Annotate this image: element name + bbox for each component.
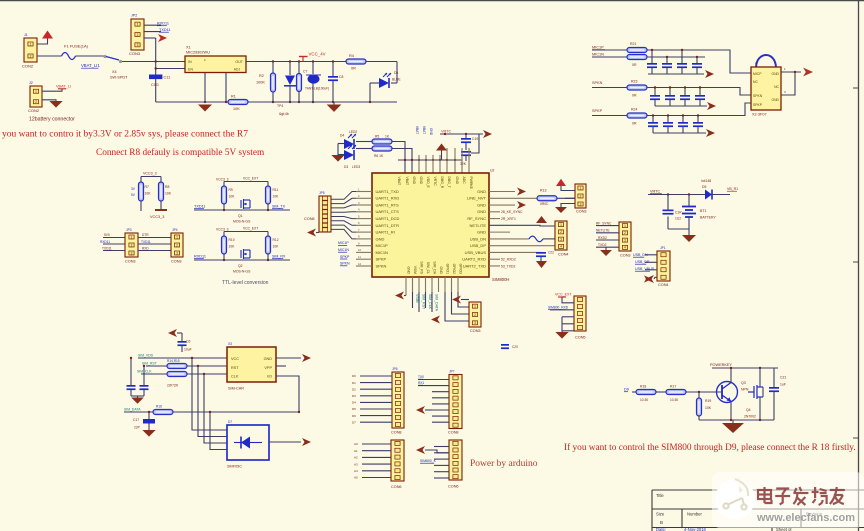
wire led to R5 (356, 141, 372, 143)
svg-text:UART1_DTR: UART1_DTR (376, 223, 400, 228)
svg-text:B: B (660, 520, 663, 525)
ground CON3 top (555, 207, 567, 213)
svg-text:GND: GND (477, 202, 486, 207)
gnd arrow CON8 (307, 229, 316, 237)
svg-text:JP5: JP5 (319, 191, 325, 195)
watermark panel (712, 472, 864, 528)
svg-text:TXD2: TXD2 (598, 243, 607, 247)
transistor Q3 NPN (717, 382, 738, 403)
resistor R7 (139, 182, 144, 201)
svg-text:10K: 10K (165, 192, 172, 196)
svg-text:A5: A5 (354, 476, 358, 480)
svg-text:2: 2 (560, 230, 562, 234)
svg-text:MIC29302WU: MIC29302WU (186, 51, 210, 55)
svg-text:VSIM: VSIM (413, 266, 417, 274)
svg-text:R17: R17 (670, 385, 676, 389)
svg-text:R19: R19 (705, 399, 711, 403)
gnd arrow C22 (536, 261, 547, 268)
svg-text:Date:: Date: (656, 527, 666, 531)
svg-text:1: 1 (35, 90, 37, 94)
svg-text:SIM_RS: SIM_RS (420, 261, 424, 274)
svg-text:32K: 32K (460, 162, 467, 166)
svg-text:SIM_TX: SIM_TX (272, 205, 286, 209)
svg-text:Number: Number (687, 512, 702, 517)
capacitor C17 (148, 412, 150, 419)
svg-text:MIC1N: MIC1N (338, 248, 349, 252)
led D4 NETLIGHT (344, 139, 354, 149)
svg-text:RX1: RX1 (418, 381, 424, 385)
wire tvs right (269, 441, 301, 443)
wire powerkey bottom rail (699, 419, 774, 421)
svg-text:1U2: 1U2 (675, 217, 681, 221)
capacitor C18 (667, 195, 669, 210)
svg-text:X1: X1 (186, 46, 191, 50)
ground C13 C14 (137, 396, 139, 398)
svg-text:2: 2 (131, 243, 133, 247)
power arrow X2 (803, 68, 813, 77)
svg-text:MIC1P: MIC1P (376, 243, 389, 248)
connector J1 (24, 38, 37, 62)
wire top rail powerkey (712, 367, 778, 369)
svg-text:SPKP: SPKP (340, 255, 350, 259)
svg-text:1: 1 (30, 42, 32, 46)
svg-text:TXD11: TXD11 (141, 240, 151, 244)
ground C17 (142, 430, 155, 437)
svg-text:VCC3_3: VCC3_3 (216, 178, 229, 182)
svg-text:4: 4 (560, 245, 562, 249)
svg-text:UART2_RXD: UART2_RXD (462, 257, 486, 262)
svg-text:X3: X3 (228, 342, 232, 346)
svg-text:SIM_RST: SIM_RST (422, 294, 426, 310)
wire JP2 pin3 (144, 37, 156, 39)
svg-text:ADJ: ADJ (234, 68, 241, 72)
svg-text:12: 12 (358, 262, 362, 266)
svg-text:A1: A1 (354, 449, 358, 453)
svg-text:GND: GND (412, 177, 416, 185)
wire switch to regulator IN (122, 61, 185, 63)
svg-text:D7: D7 (228, 420, 232, 424)
svg-text:OUT: OUT (235, 60, 243, 64)
svg-text:VCC_EXT: VCC_EXT (243, 177, 258, 181)
IC U2 bottom pin wires (405, 277, 407, 292)
ground CON3 far right (605, 247, 607, 250)
wire JP2 pin3 down to EN / bottom rail (155, 38, 157, 102)
svg-text:X2-3F07: X2-3F07 (752, 113, 767, 117)
svg-text:D3: D3 (352, 394, 356, 398)
resistor R24 (627, 113, 647, 118)
svg-text:R24: R24 (631, 108, 637, 112)
svg-text:D4: D4 (352, 401, 356, 405)
wires SIM rows to TVS (192, 358, 227, 430)
wire EN stub (156, 68, 185, 70)
svg-text:CON4: CON4 (658, 283, 669, 287)
battery BT1 (688, 195, 690, 207)
svg-text:SPKP: SPKP (592, 109, 603, 113)
svg-text:BATTERY: BATTERY (700, 216, 716, 220)
svg-text:VRTC: VRTC (650, 190, 661, 194)
svg-text:10K: 10K (229, 195, 236, 199)
svg-text:R13: R13 (540, 189, 546, 193)
svg-text:1: 1 (176, 235, 178, 239)
wires bottom pins to CON3 (445, 292, 469, 321)
ground main rail (333, 102, 335, 105)
svg-text:10-50: 10-50 (670, 398, 678, 402)
svg-text:EN: EN (188, 68, 193, 72)
svg-text:RXD11: RXD11 (100, 240, 110, 244)
gnd arrow IC bottom left (395, 292, 404, 300)
resistor R4 (346, 59, 366, 64)
svg-text:Connect R8 defauly is compati: Connect R8 defauly is compatible 5V syst… (96, 147, 265, 158)
svg-text:Q1: Q1 (238, 214, 243, 218)
wires JP1 (645, 254, 657, 256)
wire SIM_CLK / resistor R15 (141, 373, 167, 375)
zener diode D2 (289, 62, 291, 76)
wire R8 bottom to bar (160, 201, 162, 210)
svg-text:1: 1 (474, 304, 476, 308)
svg-text:VPP: VPP (264, 366, 272, 370)
svg-text:USB_DP: USB_DP (470, 243, 486, 248)
wire level conv row2 (194, 259, 290, 261)
svg-text:R14,R15: R14,R15 (167, 359, 180, 363)
svg-text:0R: 0R (632, 122, 637, 126)
svg-text:DTR: DTR (142, 233, 149, 237)
svg-text:3: 3 (560, 237, 562, 241)
resistor R13 (537, 196, 557, 201)
svg-text:SIM-CAR: SIM-CAR (228, 387, 244, 391)
svg-text:UART1_DCD: UART1_DCD (376, 216, 400, 221)
gnd arrow con3 below (452, 296, 461, 304)
resistor R6 (372, 146, 392, 151)
svg-text:JP3: JP3 (126, 228, 132, 232)
svg-text:D5: D5 (352, 407, 356, 411)
svg-text:52_RXD2: 52_RXD2 (501, 258, 516, 262)
svg-text:NETLITE: NETLITE (596, 229, 610, 233)
svg-text:2: 2 (474, 313, 476, 317)
svg-text:USB_VBUS: USB_VBUS (635, 267, 655, 271)
svg-text:VRTC: VRTC (433, 177, 437, 187)
svg-text:in4148: in4148 (701, 179, 711, 183)
wire SIM_RST / resistor R14 (146, 365, 167, 367)
IC U2 top pin labels vertical (397, 177, 473, 190)
gnd arrow right labels (644, 275, 652, 282)
wires CON5 (562, 297, 574, 303)
gnd arrow CON8 B (416, 406, 425, 414)
svg-text:TP4: TP4 (277, 104, 283, 108)
spkp capacitors C30 C31 C32 (652, 116, 654, 123)
connector CON5 (574, 296, 586, 331)
fuse F1 (62, 53, 76, 60)
svg-text:Q4: Q4 (746, 408, 751, 412)
svg-text:If you want to control the SIM: If you want to control the SIM800 throug… (564, 442, 856, 453)
wire R13 to CON6A (557, 197, 575, 199)
svg-text:UART1_CTS: UART1_CTS (376, 209, 400, 214)
gnd arrow tvs (302, 438, 311, 446)
svg-text:GND: GND (477, 209, 486, 214)
switch S1 SW-SPDT (103, 55, 106, 58)
capacitors C13 C14 (130, 358, 132, 385)
svg-text:LED2: LED2 (349, 130, 357, 134)
gnd arrow bottom2 (431, 316, 440, 324)
svg-text:CON2: CON2 (22, 64, 34, 69)
svg-text:GND: GND (407, 266, 411, 274)
svg-text:SIM800_RXD: SIM800_RXD (548, 306, 569, 310)
svg-text:USB_VBUS: USB_VBUS (465, 250, 487, 255)
svg-text:4: 4 (624, 246, 626, 250)
svg-text:R18: R18 (640, 385, 646, 389)
wire fuse to switch (76, 55, 105, 57)
svg-text:C19: C19 (472, 137, 478, 141)
capacitor C12 backup (461, 151, 471, 153)
svg-text:VDD_E: VDD_E (426, 177, 430, 189)
svg-text:VCC_EXT: VCC_EXT (555, 293, 572, 297)
svg-text:MICP: MICP (753, 72, 762, 76)
svg-text:1: 1 (131, 235, 133, 239)
svg-text:USB_DN: USB_DN (633, 253, 648, 257)
svg-text:CLK: CLK (231, 375, 239, 379)
connector CON3 far right (619, 222, 631, 251)
wires CON3 A-B middle (138, 237, 171, 239)
svg-text:GND: GND (477, 230, 486, 235)
resistor R17 (666, 390, 686, 395)
connector CON8 to IC (319, 196, 331, 232)
svg-text:SIM_RX: SIM_RX (272, 255, 286, 259)
svg-text:SIM_CLK: SIM_CLK (137, 369, 152, 373)
ground CON5 (555, 332, 568, 339)
svg-text:22P: 22P (134, 426, 141, 430)
wire SIM_VDD (138, 357, 227, 359)
svg-text:D4: D4 (340, 134, 344, 138)
mosfet Q2 (241, 249, 250, 259)
svg-text:100K: 100K (256, 81, 265, 85)
svg-text:1: 1 (560, 223, 562, 227)
connector CON3 right-top (575, 184, 586, 208)
svg-text:1: 1 (580, 186, 582, 190)
resistor R22 (627, 55, 647, 60)
svg-text:C17: C17 (133, 418, 139, 422)
svg-text:Q3: Q3 (741, 381, 746, 385)
regulator X1 MIC29302WU (185, 56, 246, 73)
svg-text:CON6: CON6 (391, 485, 402, 489)
headset jack X2 (756, 55, 776, 67)
svg-text:GND: GND (477, 189, 486, 194)
svg-text:VSIM: VSIM (415, 294, 419, 303)
svg-text:NETLITE: NETLITE (470, 223, 487, 228)
watermark logo circle (715, 479, 755, 519)
svg-text:10K: 10K (233, 107, 240, 111)
wire UART2 stubs (489, 258, 500, 260)
svg-text:NC: NC (753, 80, 758, 84)
svg-text:2: 2 (580, 194, 582, 198)
svg-text:R8: R8 (165, 185, 169, 189)
svg-text:5V0: 5V0 (104, 233, 110, 237)
gnd arrow JP1 (645, 275, 654, 283)
svg-text:GND: GND (771, 98, 779, 102)
svg-text:CON3: CON3 (620, 254, 631, 258)
svg-text:11: 11 (358, 255, 361, 259)
gnd arrow spkp rail (706, 129, 715, 137)
spkn capacitors C27 C28 C29 (654, 88, 656, 96)
svg-text:I/O: I/O (267, 375, 272, 379)
svg-text:TX0: TX0 (418, 375, 424, 379)
wire battery bottom rail (668, 228, 689, 230)
svg-text:R12: R12 (273, 238, 279, 242)
diode D5 1N4148 (705, 190, 712, 200)
capacitor C20 (501, 344, 509, 346)
svg-text:GND: GND (429, 128, 433, 136)
IC U2 right pin labels (462, 189, 486, 269)
wire X2 gnd pin (781, 71, 801, 73)
svg-text:D1: D1 (394, 71, 399, 75)
resistor R19 (698, 392, 700, 398)
svg-text:CON3: CON3 (125, 260, 136, 264)
wire X1 ADJ down (225, 73, 227, 103)
mosfet Q4 2N7002 (748, 385, 763, 399)
led D1 (379, 78, 389, 88)
power arrow VBAT bus (436, 144, 447, 151)
wire Q3 emitter (730, 402, 732, 421)
wire R5 R6 to IC top pins (392, 142, 405, 174)
svg-text:R21: R21 (630, 42, 636, 46)
gnd arrow sim (302, 354, 311, 362)
wire VRTC (440, 133, 483, 135)
mic filter capacitors C23 C24 C25 C26 (651, 50, 653, 63)
svg-text:CON8: CON8 (448, 431, 459, 435)
wire Q3 collector (730, 368, 732, 383)
svg-text:VCC3_3: VCC3_3 (143, 172, 157, 176)
svg-text:CON3: CON3 (470, 329, 481, 333)
svg-text:NPN: NPN (741, 388, 749, 392)
svg-text:C8: C8 (339, 75, 343, 79)
svg-text:3: 3 (474, 321, 476, 325)
sheet border top (0, 0, 864, 2)
svg-text:SIM_DATA: SIM_DATA (435, 294, 439, 312)
wire R17 to Q3 base (686, 391, 721, 393)
connector CON6 A (391, 440, 404, 481)
svg-text:53_TXD2: 53_TXD2 (501, 264, 515, 268)
wire Q1 rail (224, 181, 268, 183)
wire MIC1N (592, 56, 627, 58)
wire mic cap rail (648, 73, 704, 75)
wire X1 GND pin down (204, 73, 206, 103)
svg-text:JP2: JP2 (131, 14, 137, 18)
connector JP1 (657, 251, 670, 281)
svg-text:MOS-N-GS: MOS-N-GS (233, 220, 251, 224)
svg-text:10uF: 10uF (184, 348, 192, 352)
svg-text:VBAT_LI1: VBAT_LI1 (81, 63, 100, 68)
svg-text:JP1: JP1 (660, 246, 666, 250)
wires CON8 to IC pins (331, 192, 356, 200)
svg-text:CON3: CON3 (129, 51, 141, 56)
svg-text:SPKN: SPKN (753, 94, 763, 98)
wire X2 right pins (781, 72, 795, 95)
VBAT bus above IC (398, 159, 462, 161)
svg-text:SPKP: SPKP (376, 257, 387, 262)
wire VRTC to diode (648, 194, 705, 196)
svg-text:SIM_DA: SIM_DA (433, 261, 437, 274)
wire Q4 drain source (759, 368, 761, 387)
wire SIM_DATA / resistor R16 (124, 411, 153, 413)
svg-text:1uF: 1uF (780, 383, 786, 387)
svg-text:28_KE_SYNC: 28_KE_SYNC (501, 210, 523, 214)
wire USB_DN pin8 with ferrite (489, 238, 529, 240)
svg-text:VBAT: VBAT (415, 126, 419, 134)
svg-text:VCC3_3: VCC3_3 (216, 228, 229, 232)
svg-text:BT1: BT1 (700, 209, 706, 213)
svg-text:you want to contro it by3.3V o: you want to contro it by3.3V or 2.85v sy… (2, 130, 248, 140)
gnd arrow pin1 (517, 188, 526, 196)
capacitor C11 (149, 75, 162, 80)
led D3 STATUS (344, 150, 354, 160)
svg-text:CON3: CON3 (171, 260, 182, 264)
title block lines (652, 490, 864, 531)
wire J1 pin1 to VBAT power (37, 39, 48, 45)
wire USB_VBUS pin10 (489, 251, 541, 253)
power port VCC_4V (299, 56, 308, 58)
wire USB_DP pin9 (489, 245, 555, 247)
svg-text:12battery connector: 12battery connector (29, 117, 75, 123)
gnd arrow VRTC (483, 130, 492, 138)
power VBAT (42, 31, 53, 39)
svg-text:VCC3_3: VCC3_3 (150, 215, 164, 219)
svg-text:TXD11: TXD11 (159, 28, 171, 32)
wires CON8 B (418, 379, 449, 381)
svg-text:2: 2 (624, 231, 626, 235)
svg-text:R4: R4 (349, 54, 354, 58)
svg-text:CON3: CON3 (576, 210, 587, 214)
wire MIC rows to jack (647, 49, 712, 51)
svg-text:D9: D9 (624, 388, 629, 392)
svg-text:10K: 10K (705, 406, 712, 410)
svg-text:CON2: CON2 (28, 108, 40, 113)
svg-text:A0: A0 (354, 442, 358, 446)
wire SPKP (592, 115, 627, 117)
svg-text:RXD11: RXD11 (194, 255, 206, 259)
mosfet Q1 (241, 199, 250, 209)
resistor R8 (159, 182, 164, 201)
svg-text:VCC_EXT: VCC_EXT (243, 227, 258, 231)
svg-text:POWERKEY: POWERKEY (710, 363, 732, 367)
svg-text:TXD11: TXD11 (194, 205, 206, 209)
svg-text:MIC1P: MIC1P (338, 241, 349, 245)
svg-text:USB_DN: USB_DN (470, 236, 486, 241)
svg-text:2: 2 (30, 54, 32, 58)
svg-text:USB_DP: USB_DP (635, 260, 650, 264)
tvs diode array SMF05C (227, 425, 269, 460)
svg-text:VBAT: VBAT (422, 126, 426, 134)
svg-text:SPKN: SPKN (592, 81, 603, 85)
gnd arrow pin3 (517, 201, 526, 209)
sheet border right (858, 0, 860, 531)
wire GND pin7 stub (489, 231, 510, 233)
svg-text:PWRKE: PWRKE (469, 177, 473, 190)
tantalum capacitor C7 (312, 62, 314, 75)
svg-text:UART1_RI: UART1_RI (376, 230, 395, 235)
wire R4 to LED branch (366, 61, 397, 63)
svg-text:RF_SYNC: RF_SYNC (467, 216, 486, 221)
svg-text:VRTC: VRTC (441, 130, 452, 134)
connector CON4 usb (555, 221, 567, 250)
svg-text:CON8: CON8 (391, 431, 402, 435)
ground J2 (49, 101, 62, 108)
svg-text:SIM_DATA: SIM_DATA (124, 408, 141, 412)
svg-text:C22: C22 (548, 251, 554, 255)
power arrow CON4 (536, 216, 547, 223)
svg-text:SW-SPDT: SW-SPDT (110, 76, 128, 80)
svg-text:CON6: CON6 (448, 485, 459, 489)
capacitor C19 (465, 134, 467, 138)
svg-text:SIM800_K: SIM800_K (420, 459, 437, 463)
power arrow JP2 (158, 34, 167, 42)
